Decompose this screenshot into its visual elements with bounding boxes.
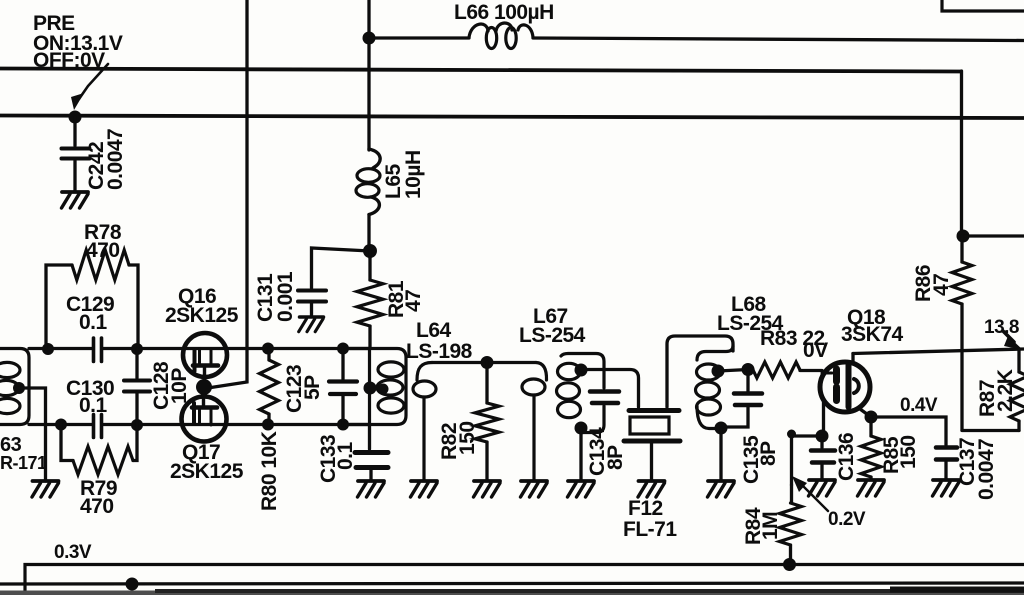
capacitor C130	[66, 377, 114, 438]
ground	[299, 317, 324, 332]
wire bottom row	[29, 423, 92, 426]
inductor L66	[454, 1, 554, 49]
svg-text:2.2K: 2.2K	[994, 369, 1017, 412]
capacitor C136	[811, 433, 858, 481]
wire drain rail 13.8V	[853, 349, 1024, 354]
svg-text:0.1: 0.1	[79, 311, 108, 334]
ground	[411, 481, 438, 497]
svg-text:FL-71: FL-71	[623, 518, 677, 541]
wire antenna column	[367, 0, 370, 150]
svg-text:0.0047: 0.0047	[104, 129, 127, 190]
label 13.8V with arrow	[984, 317, 1023, 350]
ground	[474, 481, 501, 497]
resistor R79	[61, 425, 137, 519]
transformer L68	[696, 293, 784, 435]
wire Q18 source	[860, 409, 871, 417]
svg-text:L66 100µH: L66 100µH	[454, 1, 554, 24]
svg-text:R80 10K: R80 10K	[258, 431, 281, 511]
node	[42, 343, 54, 355]
wire top row to L64	[103, 347, 369, 350]
svg-text:L64: L64	[416, 319, 452, 342]
label 0.2V with arrow	[792, 476, 866, 530]
wire L68 to ground	[719, 428, 722, 480]
svg-text:1M: 1M	[759, 512, 782, 540]
resistor R86	[912, 236, 972, 430]
node	[126, 578, 139, 591]
label PRE switch voltages	[33, 12, 123, 72]
label 0.3V	[54, 542, 92, 563]
wire IF link	[432, 361, 536, 364]
wire L63 tap to ground	[19, 388, 46, 481]
wire PRE bus	[0, 116, 1024, 119]
svg-text:47: 47	[402, 290, 425, 312]
capacitor C135	[724, 370, 780, 485]
inductor L64 secondary	[413, 363, 436, 481]
resistor R83	[748, 327, 828, 378]
wire L65 to node	[367, 215, 370, 251]
ground	[858, 480, 885, 496]
ground	[568, 481, 595, 497]
svg-text:0.2V: 0.2V	[828, 509, 866, 530]
ground	[638, 481, 665, 497]
ground	[521, 481, 548, 497]
svg-text:0.4V: 0.4V	[900, 395, 938, 416]
node	[55, 419, 67, 431]
inductor L65	[356, 149, 425, 215]
svg-text:R-171: R-171	[0, 453, 47, 473]
wire gate2 to R84	[792, 436, 823, 485]
svg-text:3SK74: 3SK74	[841, 323, 904, 346]
wire to F12	[581, 370, 639, 408]
node L66 junction	[363, 32, 376, 45]
node	[337, 419, 349, 431]
wire L68 tap	[718, 370, 748, 372]
capacitor C137	[936, 438, 998, 500]
wire top supply bus	[0, 69, 961, 72]
svg-text:150: 150	[456, 421, 479, 455]
ground	[62, 192, 89, 208]
svg-text:0.0047: 0.0047	[975, 439, 998, 500]
transistor Q17 2SK125	[170, 393, 244, 483]
wire bottom rail	[0, 583, 1024, 584]
svg-text:5P: 5P	[301, 375, 324, 400]
resistor R85	[861, 417, 920, 479]
svg-text:0.1: 0.1	[334, 441, 357, 470]
resistor R78	[46, 221, 138, 348]
inductor L67 primary	[522, 363, 547, 481]
svg-text:F12: F12	[628, 497, 663, 520]
svg-text:0.3V: 0.3V	[54, 542, 92, 563]
svg-text:LS-254: LS-254	[519, 324, 586, 347]
svg-text:470: 470	[86, 239, 120, 262]
capacitor C131	[254, 271, 326, 322]
resistor R82	[438, 363, 499, 481]
wire to right edge	[963, 234, 1024, 237]
scan edge bar	[0, 587, 1024, 595]
svg-text:10P: 10P	[168, 368, 191, 404]
wire 0.3V rail	[25, 565, 1024, 595]
transformer L63	[0, 349, 47, 474]
arrow from PRE label to bus	[71, 64, 108, 110]
crystal filter F12 FL-71	[623, 411, 680, 542]
wire R86 to R87 bottom	[962, 429, 1019, 432]
svg-text:0.1: 0.1	[79, 394, 108, 417]
wire L67 tap to ground	[579, 428, 582, 480]
wire top-right corner box	[942, 0, 1024, 11]
capacitor C242	[62, 117, 128, 191]
ground	[809, 480, 836, 496]
wire to L66	[369, 36, 469, 39]
node	[131, 343, 143, 355]
node gate2	[816, 430, 829, 443]
svg-text:2SK125: 2SK125	[170, 460, 244, 483]
svg-text:LS-198: LS-198	[406, 340, 473, 363]
wire bracket to C131	[312, 248, 371, 288]
node	[337, 343, 349, 355]
svg-text:0.001: 0.001	[274, 271, 297, 322]
svg-text:C136: C136	[835, 433, 858, 481]
wire L66 to right edge	[533, 38, 1024, 41]
svg-text:13.8: 13.8	[984, 317, 1019, 338]
wire gate feed to Q17	[211, 0, 247, 388]
wire F12 output up	[667, 336, 733, 407]
node	[262, 419, 274, 431]
resistor R80	[258, 349, 281, 512]
ground	[708, 481, 735, 497]
node on PRE bus	[69, 111, 82, 124]
transistor Q16 2SK125	[165, 285, 239, 381]
resistor R84	[742, 485, 802, 564]
node	[131, 419, 143, 431]
resistor R87	[976, 350, 1024, 431]
node	[865, 411, 878, 424]
node	[787, 430, 796, 439]
node	[742, 363, 755, 376]
svg-text:47: 47	[930, 274, 953, 296]
label 0.4V	[900, 395, 938, 416]
node	[783, 558, 796, 571]
capacitor C128	[124, 349, 191, 424]
wire top row	[29, 347, 92, 350]
node	[957, 230, 970, 243]
wire bottom row to L64	[103, 423, 369, 426]
node	[481, 356, 494, 369]
ground	[358, 481, 385, 497]
svg-text:8P: 8P	[757, 441, 780, 466]
svg-text:150: 150	[897, 435, 920, 469]
svg-text:10µH: 10µH	[402, 150, 425, 199]
transistor Q18 3SK74	[820, 306, 904, 412]
wire right bus down	[960, 71, 963, 236]
capacitor C129	[66, 293, 114, 362]
ground	[32, 481, 59, 497]
transformer L64	[345, 319, 473, 425]
resistor R81	[357, 251, 425, 348]
wire Q18 drain	[851, 354, 854, 365]
wire source rail 0.4V	[871, 417, 946, 445]
svg-text:8P: 8P	[604, 445, 627, 470]
svg-text:0V: 0V	[803, 339, 828, 362]
node L65 bottom junction	[363, 244, 377, 258]
node Q16-Q17 junction	[196, 379, 212, 395]
capacitor C133	[317, 425, 388, 484]
node	[262, 343, 274, 355]
svg-text:2SK125: 2SK125	[165, 304, 239, 327]
capacitor C134	[586, 392, 627, 477]
svg-text:470: 470	[80, 495, 114, 518]
ground	[933, 480, 960, 496]
transformer L67 secondary	[519, 305, 604, 435]
capacitor C123	[283, 349, 357, 425]
wire Q18 gate2 down	[822, 399, 825, 436]
svg-text:OFF:0V: OFF:0V	[33, 49, 105, 72]
